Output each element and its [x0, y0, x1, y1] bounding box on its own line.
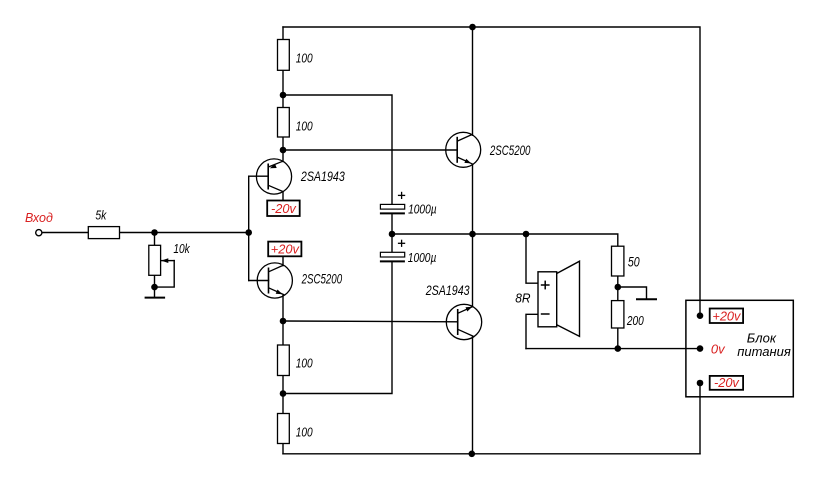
svg-text:2SA1943: 2SA1943	[300, 169, 345, 185]
svg-text:питания: питания	[737, 344, 791, 359]
svg-text:+20v: +20v	[712, 308, 742, 323]
svg-text:5k: 5k	[95, 208, 107, 222]
svg-text:1000µ: 1000µ	[408, 202, 437, 216]
svg-text:1000µ: 1000µ	[408, 251, 437, 265]
svg-text:50: 50	[628, 254, 640, 270]
svg-text:100: 100	[296, 357, 313, 371]
svg-text:-20v: -20v	[714, 375, 740, 390]
svg-text:100: 100	[296, 51, 313, 65]
svg-text:-20v: -20v	[271, 201, 297, 216]
svg-text:Вход: Вход	[25, 211, 53, 225]
svg-text:8R: 8R	[515, 291, 530, 306]
svg-text:10k: 10k	[173, 242, 190, 256]
svg-text:2SA1943: 2SA1943	[425, 283, 470, 299]
svg-text:100: 100	[296, 425, 313, 439]
svg-text:200: 200	[626, 314, 644, 328]
svg-text:100: 100	[296, 119, 313, 133]
svg-text:0v: 0v	[711, 341, 726, 356]
svg-text:+20v: +20v	[271, 242, 301, 257]
svg-text:2SC5200: 2SC5200	[489, 144, 531, 159]
svg-text:2SC5200: 2SC5200	[301, 272, 343, 287]
